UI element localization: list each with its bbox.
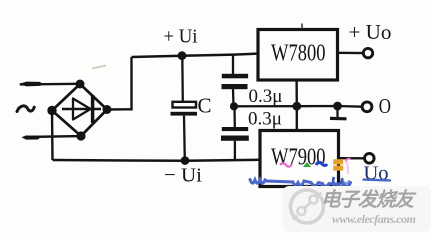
wire -Ui bottom rail (53, 160, 261, 161)
watermark colour squiggles over W7900 (280, 159, 351, 184)
wire +Ui top rail (132, 54, 259, 57)
bridge rectifier D (52, 84, 107, 136)
svg-text:W7900: W7900 (271, 143, 326, 170)
svg-text:0.3μ: 0.3μ (248, 109, 282, 130)
capacitor 0.3u upper (222, 55, 249, 107)
node right of bridge (103, 105, 112, 114)
regulator U1 W7800 (258, 24, 338, 81)
wire bridge left node down to -Ui rail (51, 111, 54, 161)
terminal O (362, 102, 372, 112)
svg-text:电子发烧友: 电子发烧友 (321, 189, 416, 211)
wire middle rail (234, 105, 363, 108)
svg-text:C: C (198, 94, 212, 118)
AC input wire upper (19, 82, 81, 87)
capacitor 0.3u lower (221, 106, 249, 160)
node middle rail right (333, 102, 342, 111)
node top of bridge (76, 80, 85, 89)
smudge above bridge (92, 66, 106, 69)
regulator U2 W7900 (260, 131, 339, 187)
capacitor C (171, 56, 198, 161)
svg-text:W7800: W7800 (271, 39, 326, 66)
svg-text:0.3μ: 0.3μ (249, 86, 283, 107)
AC input wire lower (22, 136, 82, 140)
node bottom of bridge (76, 131, 85, 140)
node C top junction (178, 51, 187, 60)
node C bottom junction (181, 156, 190, 165)
wire W7800 gnd pin (295, 80, 298, 106)
AC source symbol ~ (17, 106, 34, 112)
terminal +Uo (363, 48, 372, 57)
svg-text:+ Uo: + Uo (349, 20, 392, 44)
wire stub to W7900 common (330, 106, 347, 119)
node left of bridge (47, 106, 56, 115)
svg-text:− Ui: − Ui (164, 165, 202, 187)
svg-text:O: O (379, 94, 391, 118)
terminal -Uo (365, 154, 375, 164)
watermark blue script row (250, 180, 390, 189)
svg-text:+ Ui: + Ui (164, 26, 198, 48)
svg-text:www.elecfans.com: www.elecfans.com (332, 212, 416, 226)
wire W7800 output (338, 52, 363, 55)
wire bridge right node up to +Ui rail (107, 57, 132, 110)
wire gnd junction down to W7900 (296, 106, 298, 130)
node middle rail left (230, 102, 238, 110)
node gnd junction (292, 102, 301, 111)
wire W7900 output (339, 157, 365, 160)
watermark elecfans bottom right (283, 186, 431, 232)
